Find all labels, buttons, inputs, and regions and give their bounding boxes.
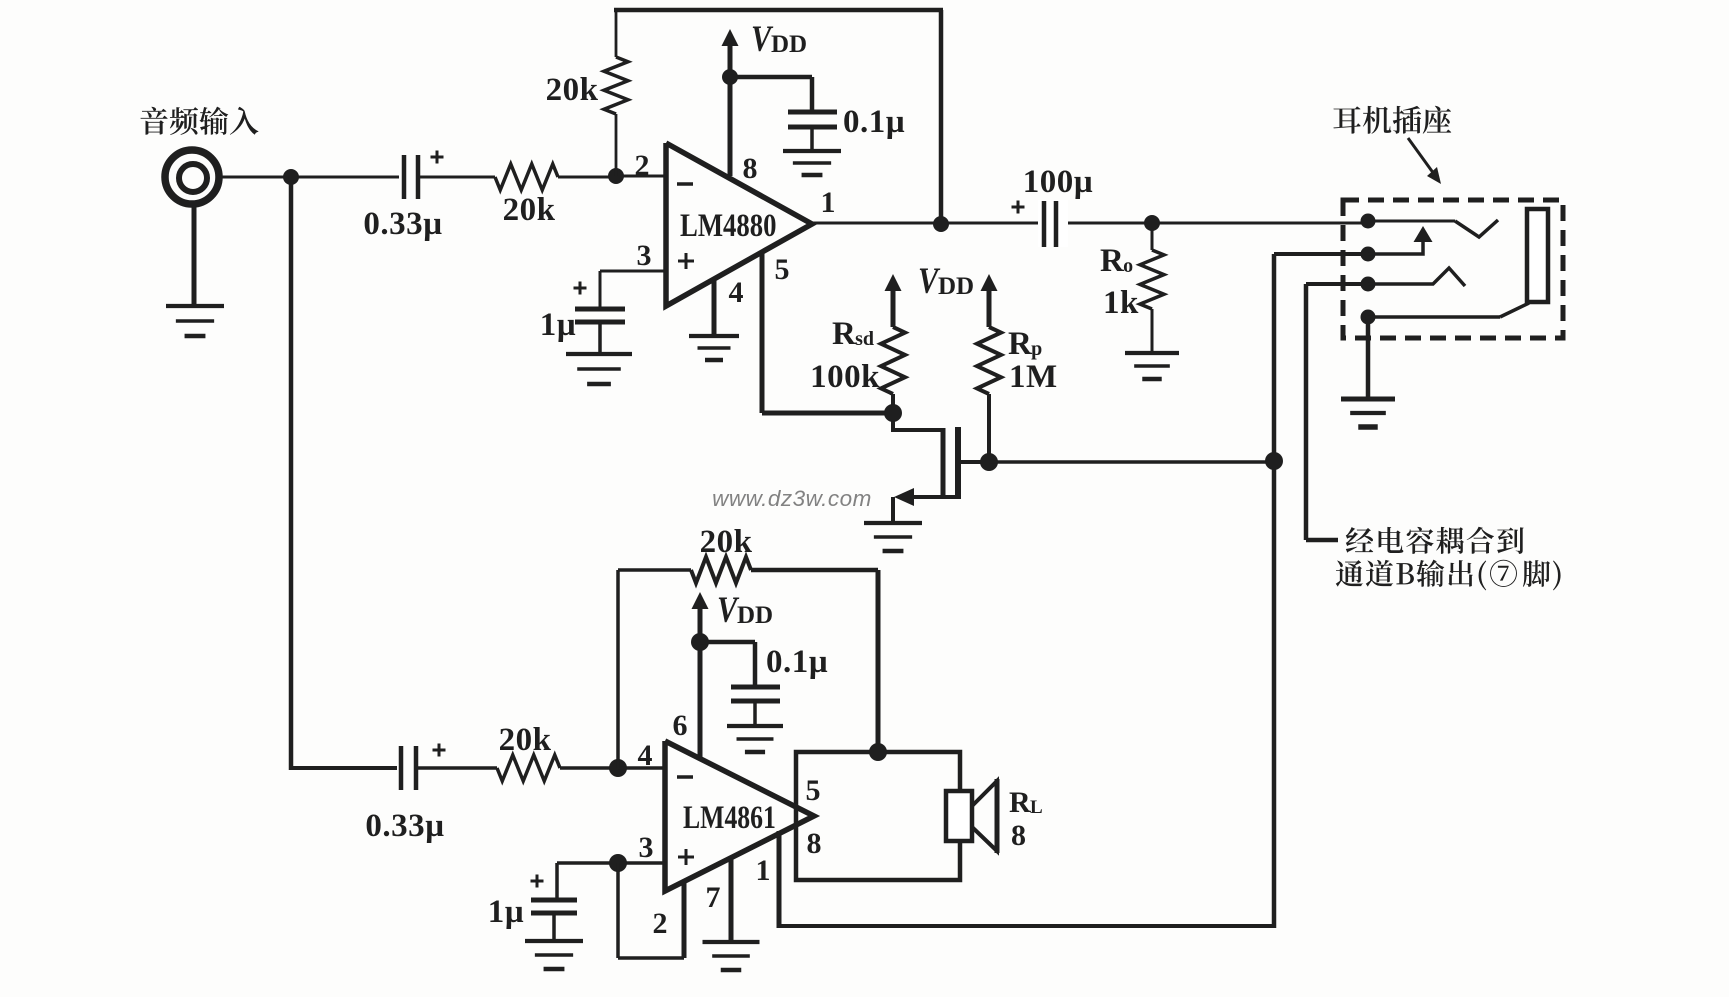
wire channel B input horizontal (291, 766, 397, 770)
label note line1 经电容耦合到 (1346, 527, 1524, 554)
node jack terminal 3 (1361, 277, 1376, 292)
capacitor C5 0.33u plates (399, 746, 404, 790)
node output junction (933, 216, 949, 232)
wire node2 to op-amp pin2 (616, 175, 666, 178)
ground C2 (566, 352, 632, 356)
capacitor C7 polarity + (531, 880, 544, 883)
wire left vertical to channel B (289, 177, 294, 770)
wire pin3 to C7 (555, 863, 559, 899)
wire op-amp U1 pin4 (712, 279, 717, 336)
wire feedback B top left (618, 568, 691, 572)
node audio-input label 音频输入 (140, 107, 258, 135)
wire Ro top (1151, 223, 1154, 250)
jack sleeve wire (1368, 315, 1500, 319)
transistor Q1 source arrow (894, 488, 914, 506)
resistor Ro 1k (1140, 250, 1164, 309)
capacitor C1 0.33u top plates (402, 155, 407, 199)
node jack terminal 2 (1361, 247, 1376, 262)
node pin4 junction (609, 759, 627, 777)
svg-text:0.1µ: 0.1µ (766, 644, 828, 680)
wire feedback top (614, 8, 943, 13)
wire op-amp U2 pin1 (777, 831, 782, 928)
node jack sleeve terminal (1361, 310, 1376, 325)
svg-text:1µ: 1µ (488, 894, 525, 930)
ground connector (166, 304, 224, 308)
wire feedback B left vertical (616, 570, 620, 768)
node pin3 junction U2 (609, 854, 627, 872)
wire jack line2 (1274, 252, 1368, 256)
power VDD arrow Rsd (885, 274, 902, 291)
svg-text:7: 7 (706, 881, 721, 914)
connector J1 audio input (165, 150, 219, 204)
transistor Q1 gate bar (941, 428, 946, 497)
node VDD junction U1 (722, 69, 738, 85)
capacitor C3 0.1u top (788, 110, 837, 115)
svg-text:0.1µ: 0.1µ (843, 104, 905, 140)
jack tip switch contact (1455, 220, 1498, 237)
ground Q1 source (864, 521, 922, 525)
wire C3 to ground (810, 127, 814, 151)
capacitor C6 0.1u bottom (731, 685, 780, 690)
power VDD arrow U2 pin6 (692, 592, 709, 609)
svg-text:1: 1 (756, 854, 771, 887)
node pin2 junction (608, 168, 624, 184)
wire Rp to drain (987, 394, 991, 462)
capacitor C2 polarity + (574, 287, 587, 290)
wire feedback right vertical (939, 10, 944, 224)
resistor R6 20k feedback B (691, 557, 751, 583)
wire op-amp U2 pin2 (682, 881, 687, 958)
wire U1 output (812, 222, 1368, 225)
svg-text:5: 5 (775, 253, 790, 286)
speaker RL cone (972, 781, 997, 851)
svg-text:3: 3 (639, 831, 654, 864)
svg-text:5: 5 (806, 774, 821, 807)
op-amp U2 minus (677, 775, 693, 779)
capacitor C5 polarity + (433, 749, 446, 752)
capacitor C1 polarity + (431, 156, 444, 159)
svg-text:4: 4 (729, 276, 744, 309)
wire C1 to R1 (420, 176, 495, 179)
wire sleeve to ground (1366, 317, 1371, 399)
jack sleeve diagonal (1500, 303, 1529, 317)
svg-text:1k: 1k (1103, 285, 1139, 321)
svg-text:o: o (1123, 255, 1133, 277)
node VDD junction U2 (691, 633, 709, 651)
wire pin3 down to C2 (599, 271, 602, 307)
op-amp U2 plus (678, 856, 694, 859)
arrow to jack (1408, 138, 1434, 174)
svg-text:20k: 20k (499, 722, 552, 758)
wire jack line2 vertical to bottom (1272, 254, 1277, 928)
transistor Q1 gate wire (893, 413, 943, 430)
transistor Q1 source wire (912, 495, 958, 499)
op-amp U1 minus (677, 182, 693, 186)
svg-text:6: 6 (673, 709, 688, 742)
capacitor C4 100u plates (1038, 200, 1068, 247)
svg-text:1M: 1M (1009, 359, 1058, 395)
svg-text:1µ: 1µ (540, 307, 577, 343)
jack tip contact wire (1368, 220, 1455, 223)
wire Rsd to gate node (891, 394, 895, 413)
jack line2 arrow up (1414, 226, 1433, 242)
svg-text:DD: DD (938, 273, 974, 300)
op-amp U1 plus (678, 260, 694, 263)
svg-text:R: R (1100, 243, 1125, 279)
wire jack line3 (1306, 282, 1368, 286)
ground U1 pin4 (689, 334, 739, 338)
jack plug body (1527, 209, 1548, 302)
resistor Rp 1M (977, 327, 1001, 394)
ground jack (1341, 397, 1395, 402)
transistor Q1 drain wire (958, 460, 989, 464)
wire C7 to ground (552, 913, 556, 941)
svg-text:20k: 20k (546, 72, 599, 108)
ground Ro (1125, 351, 1179, 355)
wire Ro bottom (1151, 309, 1154, 353)
resistor R5 20k input bottom (497, 755, 560, 781)
wire VDD to C3 (730, 75, 812, 80)
wire R1 to node2 (558, 176, 616, 179)
wire connector stem (192, 205, 197, 306)
wire R5 to node4 (560, 766, 618, 770)
wire node4 to op-amp pin4 (618, 766, 665, 770)
svg-text:L: L (1030, 797, 1043, 818)
op-amp U1 LM4880 (666, 143, 812, 306)
wire feedback left vertical (615, 10, 618, 57)
wire pin2 loop down (616, 863, 620, 958)
svg-text:4: 4 (638, 739, 653, 772)
wire jack line3 vertical (1304, 284, 1309, 540)
ground C3 (783, 149, 841, 153)
speaker box (796, 752, 960, 880)
svg-text:LM4880: LM4880 (680, 207, 776, 243)
wire input to junction (220, 176, 291, 179)
svg-text:8: 8 (743, 152, 758, 185)
svg-text:1: 1 (821, 186, 836, 219)
svg-text:20k: 20k (700, 524, 753, 560)
node speaker box top junction (869, 743, 887, 761)
wire C6 to ground (753, 701, 757, 726)
wire pin2 loop bottom (618, 956, 684, 960)
ground C6 (727, 724, 783, 728)
transistor Q1 channel bar (955, 427, 961, 499)
label note line2 通道B输出(7脚) (1336, 560, 1561, 591)
wire feedback B top right (751, 568, 878, 573)
svg-text:20k: 20k (503, 192, 556, 228)
ground U2 pin7 (703, 940, 760, 944)
capacitor C4 polarity + (1012, 206, 1025, 209)
svg-text:sd: sd (855, 328, 874, 350)
svg-text:p: p (1031, 338, 1042, 360)
wire op-amp U2 pin3 (557, 861, 665, 865)
ground C7 (525, 939, 583, 943)
svg-text:0.33µ: 0.33µ (365, 808, 444, 844)
svg-text:0.33µ: 0.33µ (363, 206, 442, 242)
jack line2 wiper wire (1368, 240, 1423, 254)
capacitor C7 1u plates (531, 898, 577, 903)
wire bottom return (779, 924, 1274, 928)
svg-text:R: R (832, 316, 857, 352)
svg-text:2: 2 (653, 907, 668, 940)
wire feedback B right vertical (876, 570, 881, 752)
wire junction to C1 (291, 176, 399, 179)
resistor R1 20k input top (495, 164, 558, 190)
wire drain to jack line2 (989, 460, 1274, 464)
svg-text:2: 2 (635, 149, 650, 182)
node gate junction (884, 404, 902, 422)
wire op-amp pin3 (600, 270, 666, 273)
resistor R2 20k feedback vertical (604, 57, 628, 114)
resistor Rsd 100k (881, 327, 905, 394)
node input junction (283, 169, 299, 185)
svg-text:DD: DD (771, 31, 807, 58)
op-amp U2 LM4861 (665, 741, 814, 891)
wire VDD to C6 (700, 640, 755, 645)
svg-text:100µ: 100µ (1023, 164, 1094, 200)
node Ro junction (1144, 215, 1160, 231)
wire op-amp U2 pin7 (729, 856, 734, 942)
label 耳机插座 (1333, 106, 1451, 134)
svg-text:8: 8 (807, 827, 822, 860)
node jack tip terminal (1361, 214, 1376, 229)
jack line3 switch contact (1368, 268, 1465, 286)
jack dashed box (1343, 200, 1563, 338)
wire C2 to ground (598, 322, 602, 354)
power VDD arrow U1 pin8 (722, 29, 739, 46)
wire R2 to node2 (615, 114, 618, 176)
svg-text:R: R (1008, 326, 1033, 362)
wire C5 to R5 (418, 766, 497, 770)
node drain junction Rp (980, 453, 998, 471)
svg-text:R: R (1009, 786, 1031, 819)
svg-text:8: 8 (1011, 819, 1026, 852)
node jack line2 drain junction (1265, 452, 1283, 470)
svg-text:LM4861: LM4861 (683, 800, 776, 836)
capacitor C2 1u plates (575, 307, 625, 312)
wire bracket to note text (1306, 538, 1338, 543)
wire source to ground (891, 497, 895, 523)
svg-text:www.dz3w.com: www.dz3w.com (712, 486, 872, 511)
svg-text:DD: DD (737, 602, 773, 629)
wire op-amp U1 pin5 shutdown (760, 252, 765, 413)
power VDD arrow Rp (981, 274, 998, 291)
speaker RL driver (946, 791, 972, 841)
svg-text:3: 3 (637, 239, 652, 272)
svg-text:100k: 100k (810, 359, 880, 395)
